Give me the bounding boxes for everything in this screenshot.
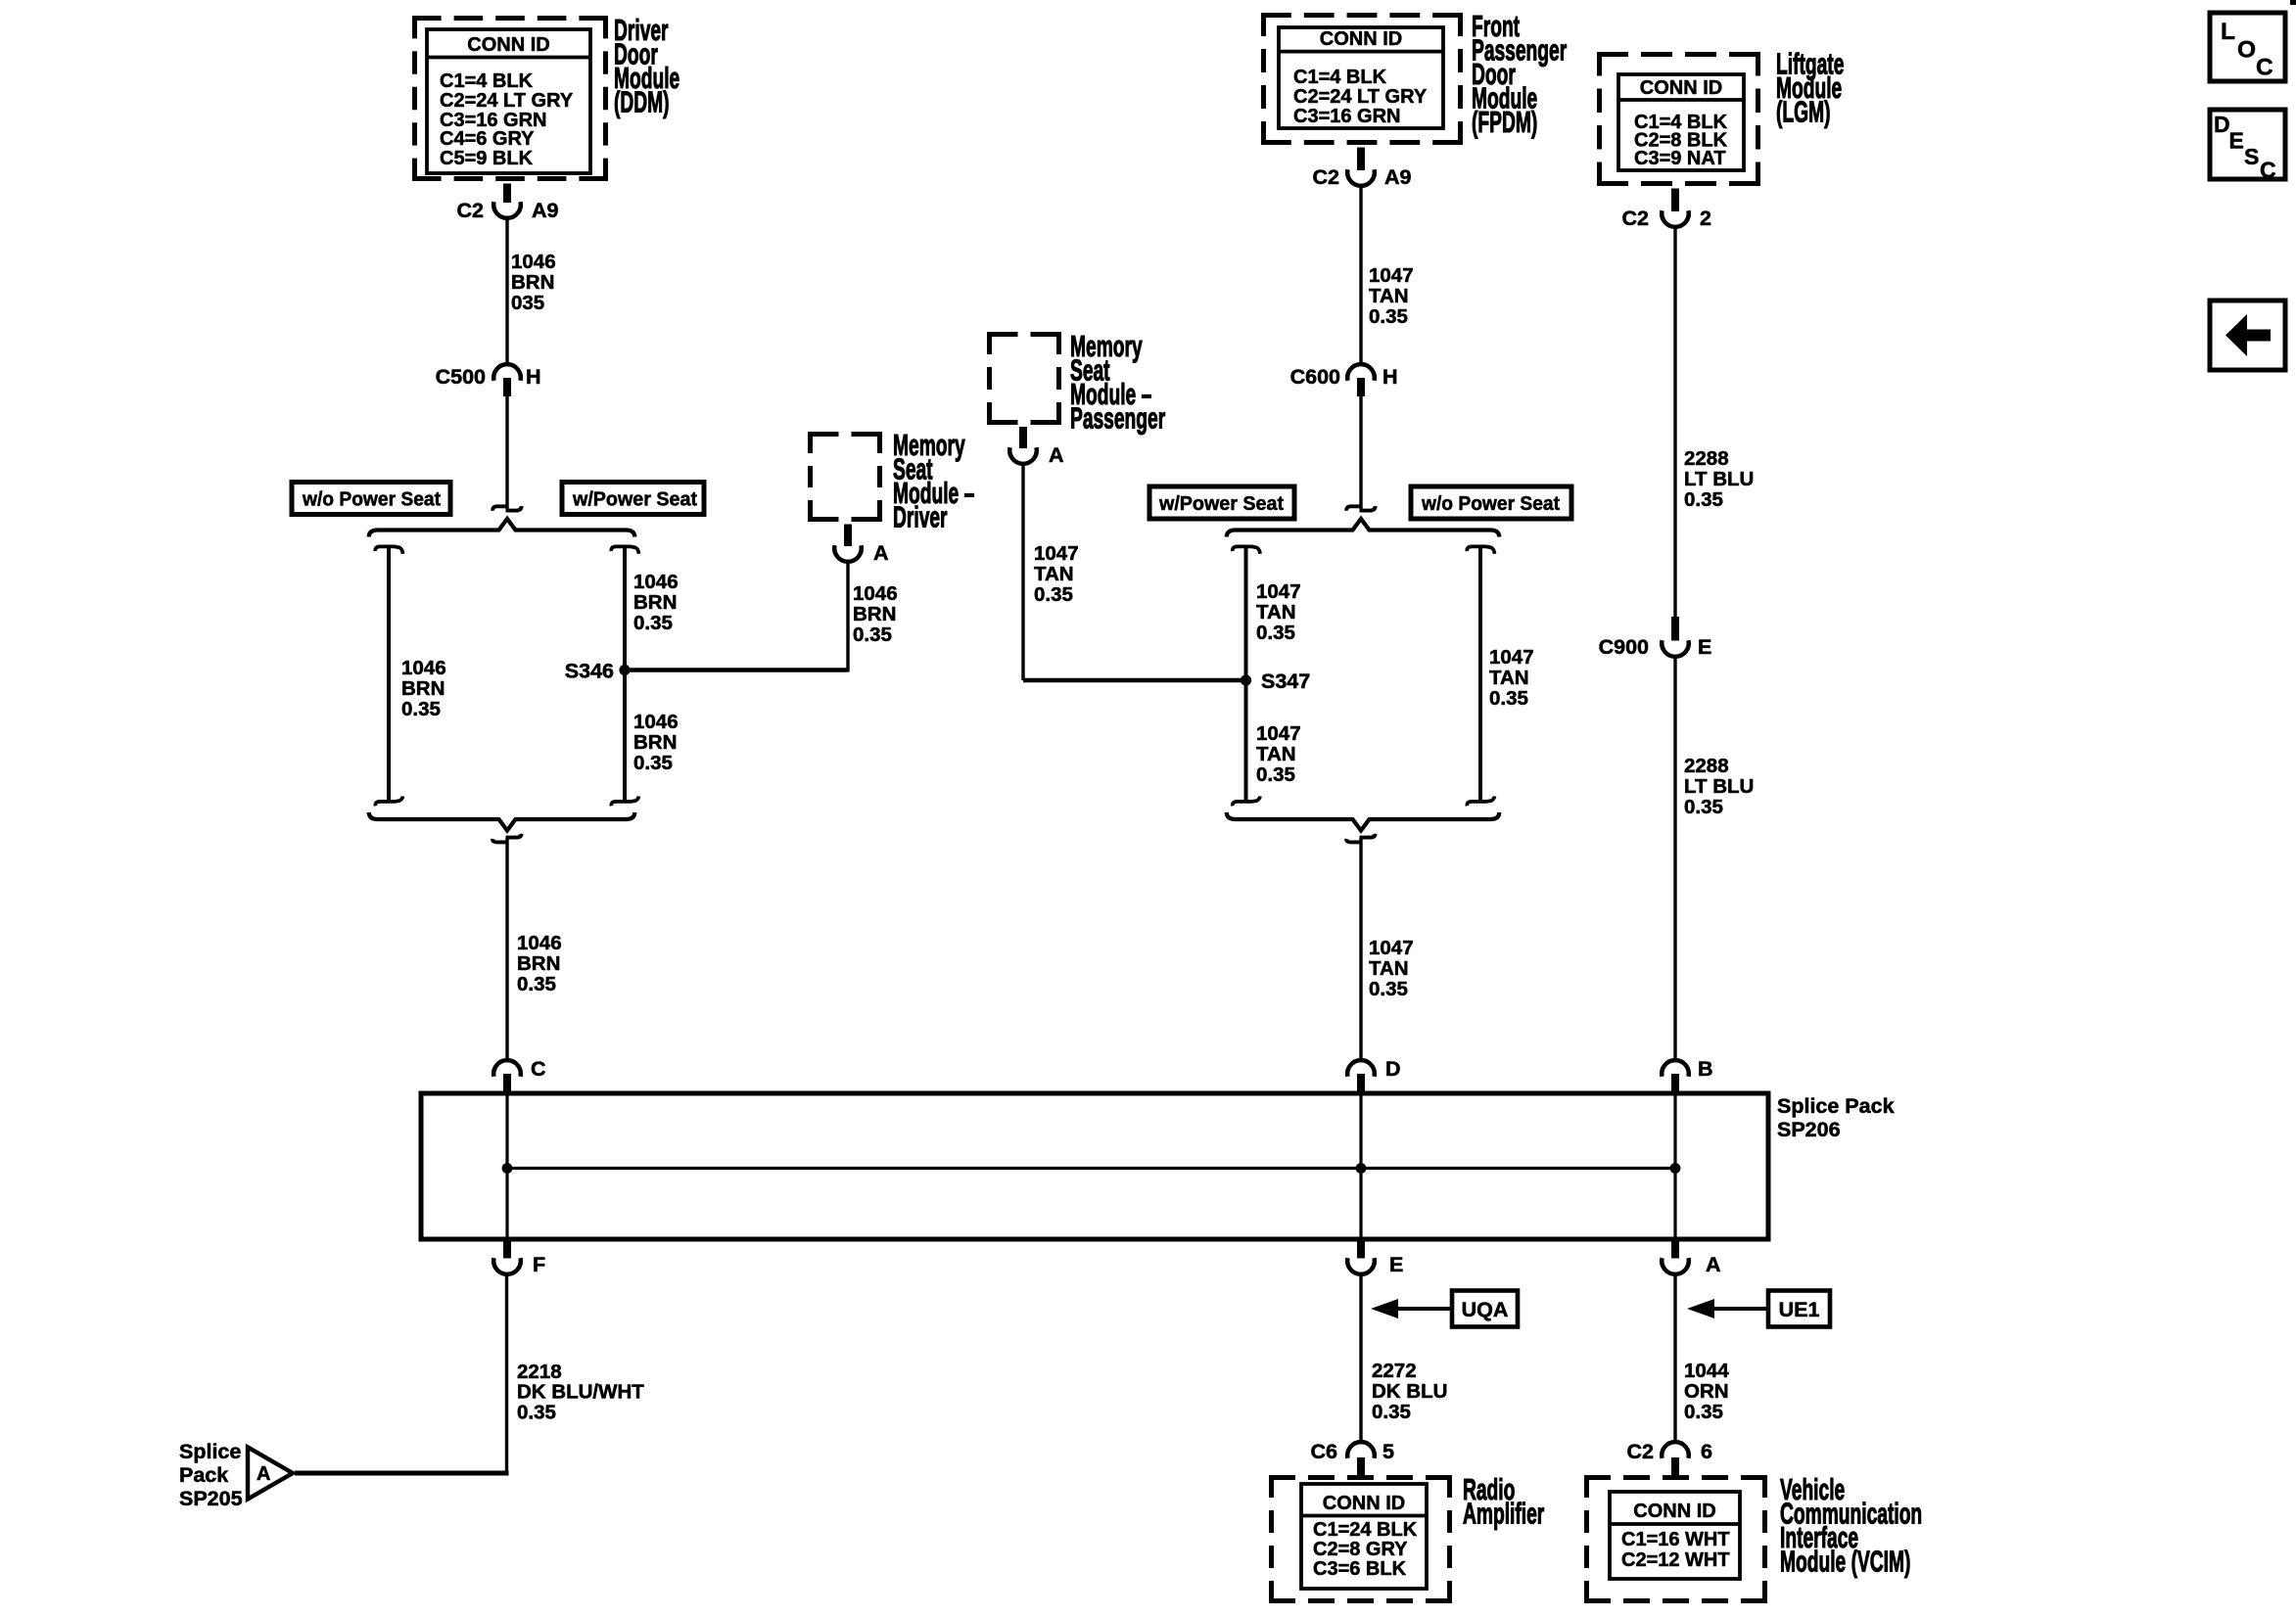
label Liftgate Module (LGM) [1776, 48, 1844, 129]
svg-text:0.35: 0.35 [517, 1401, 556, 1423]
module LGM (Liftgate Module) CONN ID box [1597, 52, 1760, 186]
option brace top (left assembly) [369, 519, 635, 537]
svg-text:0.35: 0.35 [1034, 583, 1073, 606]
option label box: w/Power Seat (left) [562, 483, 704, 515]
svg-text:6: 6 [1701, 1440, 1712, 1463]
svg-text:w/o Power Seat: w/o Power Seat [1421, 492, 1560, 515]
svg-text:2218: 2218 [517, 1361, 562, 1383]
svg-text:UE1: UE1 [1779, 1298, 1820, 1321]
option brace bottom (left assembly) [369, 812, 635, 831]
svg-text:2272: 2272 [1372, 1360, 1417, 1382]
option branch wire w/Power Seat 1047 TAN 0.35 upper (right) [1233, 546, 1301, 806]
svg-text:1046: 1046 [633, 571, 679, 593]
icon DESC box (top right) [2210, 110, 2285, 183]
svg-text:TAN: TAN [1369, 957, 1409, 980]
connector F (splice pack bottom) [493, 1239, 545, 1276]
svg-text:CONN ID: CONN ID [1323, 1493, 1405, 1514]
svg-text:H: H [526, 365, 541, 389]
wire 1044 ORN 0.35 (A to VCIM C2) [1675, 1273, 1729, 1443]
label Vehicle Communication Interface Module (VCIM) [1780, 1474, 1922, 1579]
svg-text:1047: 1047 [1256, 722, 1301, 745]
svg-text:SP206: SP206 [1777, 1118, 1841, 1141]
svg-text:O: O [2237, 37, 2256, 64]
svg-text:1046: 1046 [633, 711, 679, 733]
svg-text:Module (VCIM): Module (VCIM) [1780, 1546, 1910, 1579]
svg-text:C2=24 LT GRY: C2=24 LT GRY [440, 90, 574, 112]
svg-text:0.35: 0.35 [1369, 978, 1408, 1000]
connector C6 pin 5 (Radio Amplifier) [1311, 1440, 1394, 1475]
module Memory Seat Module - Passenger (dashed box) [987, 332, 1061, 425]
svg-text:1047: 1047 [1489, 646, 1534, 669]
svg-text:C: C [531, 1057, 546, 1081]
svg-text:C600: C600 [1290, 365, 1340, 389]
svg-text:E: E [2229, 128, 2244, 154]
connector B (splice pack top) [1662, 1057, 1712, 1093]
splice pack SP205 triangle symbol A [248, 1448, 293, 1500]
wire 1047 TAN 0.35 (Memory Passenger to S347) [1023, 463, 1246, 680]
svg-text:C2: C2 [1313, 165, 1340, 189]
svg-text:C3=16 GRN: C3=16 GRN [1293, 106, 1401, 127]
svg-text:0.35: 0.35 [401, 698, 441, 720]
wire break (top of right option split) [1346, 506, 1375, 511]
option branch wire w/o Power Seat 1046 BRN 0.35 (left) [375, 546, 445, 806]
svg-text:2288: 2288 [1684, 447, 1729, 470]
wire break (top of left option split) [492, 506, 521, 511]
svg-text:S346: S346 [565, 660, 614, 683]
label Driver Door Module (DDM) [614, 15, 679, 119]
svg-text:w/o Power Seat: w/o Power Seat [302, 488, 441, 511]
splice S347 [1241, 670, 1310, 693]
svg-text:A: A [257, 1463, 270, 1485]
svg-text:C1=24 BLK: C1=24 BLK [1313, 1519, 1418, 1541]
svg-text:B: B [1698, 1057, 1713, 1081]
svg-text:ORN: ORN [1684, 1380, 1729, 1403]
svg-text:1047: 1047 [1369, 937, 1414, 959]
option label box: w/o Power Seat (left) [292, 483, 450, 515]
svg-text:S: S [2244, 144, 2259, 169]
svg-text:Amplifier: Amplifier [1463, 1498, 1544, 1531]
svg-text:LT BLU: LT BLU [1684, 775, 1754, 798]
svg-text:F: F [533, 1253, 545, 1276]
svg-text:D: D [2214, 112, 2230, 137]
option branch wire w/Power Seat 1046 BRN 0.35 upper (left) [611, 546, 678, 806]
svg-text:0.35: 0.35 [633, 752, 673, 774]
connector C500 pin H [436, 364, 541, 396]
page corner tick [2290, 0, 2296, 5]
wire 1046 BRN 035 (DDM C2-A9 to C500) [507, 218, 556, 366]
svg-text:0.35: 0.35 [1684, 488, 1723, 511]
circuit option arrow UQA [1371, 1291, 1518, 1327]
svg-text:C3=6 BLK: C3=6 BLK [1313, 1558, 1407, 1580]
connector C2 pin 2 (LGM) [1622, 189, 1711, 231]
svg-text:A: A [1049, 443, 1064, 467]
svg-text:TAN: TAN [1256, 743, 1296, 765]
module VCIM CONN ID box [1584, 1475, 1767, 1603]
svg-text:C2: C2 [1627, 1440, 1655, 1463]
option brace top (right assembly) [1227, 519, 1500, 537]
wire 2288 LT BLU 0.35 (C900 to splice pack B) [1675, 656, 1754, 1061]
svg-text:1046: 1046 [517, 932, 562, 954]
connector A (Memory Seat Module - Driver) [834, 525, 888, 566]
circuit option arrow UE1 [1687, 1291, 1830, 1327]
svg-text:w/Power Seat: w/Power Seat [1158, 492, 1284, 515]
connector C2 pin 6 (VCIM) [1627, 1440, 1712, 1475]
svg-text:C2=12 WHT: C2=12 WHT [1621, 1549, 1730, 1571]
svg-text:2288: 2288 [1684, 755, 1729, 777]
svg-text:Pack: Pack [179, 1463, 228, 1487]
svg-text:Passenger: Passenger [1070, 402, 1165, 436]
label Memory Seat Module - Passenger [1070, 331, 1165, 436]
svg-text:1046: 1046 [511, 251, 556, 273]
label Front Passenger Door Module (FPDM) [1472, 11, 1567, 140]
svg-text:0.35: 0.35 [1256, 763, 1295, 786]
svg-text:TAN: TAN [1034, 563, 1074, 585]
wire 1047 TAN 0.35 (right option to splice D) [1361, 838, 1414, 1061]
label Memory Seat Module - Driver [893, 430, 974, 534]
svg-text:A9: A9 [1384, 165, 1412, 189]
junction dot (C branch) [502, 1163, 513, 1174]
svg-text:0.35: 0.35 [1256, 622, 1295, 644]
wire 1047 TAN 0.35 (FPDM to C600) [1361, 185, 1414, 365]
svg-text:L: L [2221, 19, 2235, 45]
wire 2218 DK BLU/WHT 0.35 (F to SP205) [295, 1273, 644, 1473]
svg-text:0.35: 0.35 [1372, 1401, 1411, 1423]
junction dot (D branch) [1356, 1163, 1367, 1174]
svg-text:TAN: TAN [1256, 601, 1296, 624]
svg-text:TAN: TAN [1369, 285, 1409, 307]
svg-text:A: A [1706, 1253, 1721, 1276]
wire (C600 to option split) [1359, 396, 1362, 509]
svg-text:C4=6 GRY: C4=6 GRY [440, 128, 535, 150]
svg-text:C500: C500 [436, 365, 486, 389]
svg-text:H: H [1382, 365, 1398, 389]
svg-text:E: E [1389, 1253, 1403, 1276]
svg-text:Splice: Splice [179, 1440, 241, 1463]
svg-text:1046: 1046 [853, 582, 898, 605]
svg-text:C2: C2 [457, 199, 485, 222]
svg-text:Splice Pack: Splice Pack [1777, 1094, 1895, 1118]
svg-text:035: 035 [511, 292, 544, 314]
svg-text:LT BLU: LT BLU [1684, 468, 1754, 490]
option label box: w/o Power Seat (right) [1411, 486, 1571, 519]
connector C2 pin A9 (DDM) [457, 184, 559, 223]
svg-text:(FPDM): (FPDM) [1472, 107, 1537, 140]
connector C900 pin E [1599, 617, 1712, 659]
svg-text:CONN ID: CONN ID [1320, 28, 1402, 50]
svg-text:D: D [1385, 1057, 1401, 1081]
connector E (splice pack bottom) [1347, 1239, 1403, 1276]
svg-text:1044: 1044 [1684, 1360, 1729, 1382]
svg-text:C5=9 BLK: C5=9 BLK [440, 148, 534, 169]
svg-text:1046: 1046 [401, 657, 446, 679]
wire break (bottom of right option split) [1346, 834, 1376, 843]
svg-text:SP205: SP205 [179, 1487, 243, 1510]
connector C (splice pack top) [493, 1057, 545, 1093]
junction dot (B branch) [1670, 1163, 1681, 1174]
option label box: w/Power Seat (right) [1149, 486, 1294, 519]
svg-text:0.35: 0.35 [853, 624, 892, 646]
splice pack SP206 box [421, 1093, 1768, 1239]
svg-text:0.35: 0.35 [1489, 687, 1528, 710]
module Memory Seat Module - Driver (dashed box) [808, 432, 882, 522]
svg-text:DK BLU/WHT: DK BLU/WHT [517, 1381, 644, 1404]
svg-text:DK BLU: DK BLU [1372, 1380, 1447, 1403]
svg-text:BRN: BRN [633, 591, 677, 614]
svg-text:C1=4 BLK: C1=4 BLK [440, 70, 534, 92]
svg-text:2: 2 [1700, 207, 1711, 230]
svg-text:BRN: BRN [853, 603, 896, 625]
svg-text:C1=16 WHT: C1=16 WHT [1621, 1529, 1730, 1550]
icon back-arrow box (right) [2210, 300, 2285, 370]
svg-text:BRN: BRN [401, 677, 445, 700]
svg-text:CONN ID: CONN ID [1640, 77, 1722, 99]
svg-text:Driver: Driver [893, 501, 948, 534]
svg-text:(DDM): (DDM) [614, 86, 670, 119]
svg-text:w/Power Seat: w/Power Seat [572, 488, 697, 511]
wire 2272 DK BLU 0.35 (E to Radio Amplifier C6) [1361, 1273, 1447, 1443]
svg-text:C900: C900 [1599, 635, 1649, 659]
svg-text:C2=8 GRY: C2=8 GRY [1313, 1539, 1408, 1560]
svg-text:UQA: UQA [1462, 1298, 1509, 1321]
svg-text:C: C [2256, 55, 2273, 81]
svg-text:C: C [2260, 158, 2276, 183]
svg-text:S347: S347 [1261, 670, 1310, 693]
connector C2 pin A9 (FPDM) [1313, 148, 1412, 190]
svg-text:0.35: 0.35 [633, 612, 673, 634]
connector A (Memory Seat Module - Passenger) [1009, 427, 1063, 467]
svg-text:(LGM): (LGM) [1776, 96, 1830, 129]
module FPDM (Front Passenger Door Module) CONN ID box [1261, 13, 1463, 145]
svg-text:C2: C2 [1622, 207, 1650, 230]
option brace bottom (right assembly) [1227, 812, 1500, 831]
wire break (bottom of left option split) [492, 834, 522, 843]
svg-text:CONN ID: CONN ID [467, 34, 549, 56]
wire 1046 BRN 0.35 (left option to splice C) [507, 838, 562, 1061]
svg-text:C1=4 BLK: C1=4 BLK [1293, 67, 1387, 88]
wire (C500 to option split) [505, 396, 508, 509]
svg-text:E: E [1698, 635, 1711, 659]
svg-text:C3=9 NAT: C3=9 NAT [1634, 148, 1726, 169]
svg-text:CONN ID: CONN ID [1633, 1501, 1715, 1522]
svg-text:C2=24 LT GRY: C2=24 LT GRY [1293, 86, 1428, 108]
svg-text:C6: C6 [1311, 1440, 1338, 1463]
svg-text:A: A [873, 541, 889, 565]
svg-text:1047: 1047 [1369, 264, 1414, 287]
connector A (splice pack bottom) [1662, 1239, 1720, 1276]
svg-text:0.35: 0.35 [1369, 305, 1408, 328]
splice pack internal bus wire [507, 1095, 1675, 1237]
svg-text:A9: A9 [532, 199, 559, 222]
label Radio Amplifier [1463, 1474, 1544, 1531]
wire 2288 LT BLU 0.35 (LGM to C900) [1675, 226, 1754, 617]
option branch wire w/o Power Seat 1047 TAN 0.35 (right) [1467, 546, 1533, 806]
wire S346 to Memory Seat Module Driver [625, 561, 898, 672]
icon LOC box (top right) [2210, 13, 2285, 81]
module Radio Amplifier CONN ID box [1269, 1475, 1452, 1603]
label Splice Pack SP206 [1777, 1094, 1895, 1141]
label Splice Pack SP205 [179, 1440, 243, 1510]
svg-text:5: 5 [1382, 1440, 1394, 1463]
svg-text:1047: 1047 [1256, 580, 1301, 603]
splice S346 [565, 660, 631, 683]
svg-text:BRN: BRN [511, 271, 554, 294]
svg-text:0.35: 0.35 [517, 973, 556, 995]
connector D (splice pack top) [1347, 1057, 1400, 1093]
connector C600 pin H [1290, 364, 1398, 396]
svg-text:BRN: BRN [517, 952, 560, 975]
svg-text:0.35: 0.35 [1684, 1401, 1723, 1423]
svg-text:TAN: TAN [1489, 667, 1529, 689]
module DDM (Driver Door Module) CONN ID box [412, 16, 608, 181]
svg-text:0.35: 0.35 [1684, 796, 1723, 818]
svg-text:1047: 1047 [1034, 542, 1079, 565]
svg-text:BRN: BRN [633, 731, 677, 754]
